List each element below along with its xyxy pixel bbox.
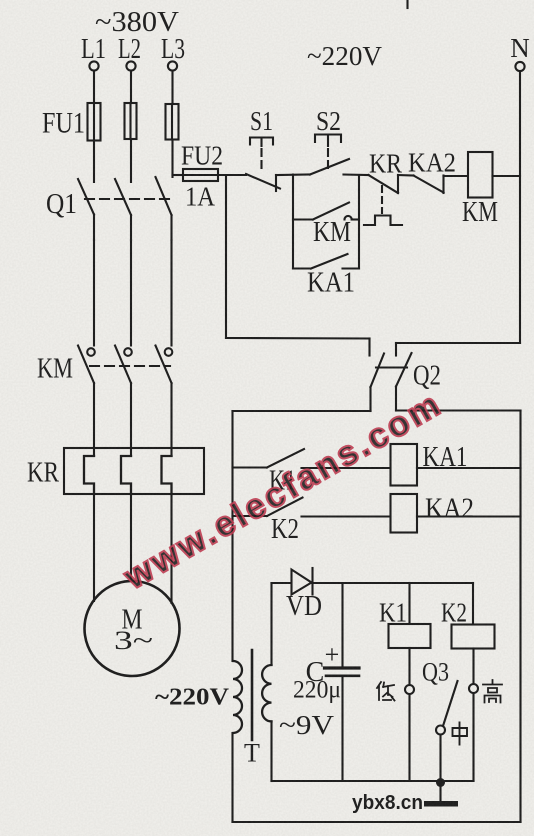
label high (CJK) xyxy=(483,680,502,703)
contact KA1 (in control) xyxy=(293,254,359,269)
relay K1 to terminal xyxy=(408,648,410,685)
wire middle to junction xyxy=(439,735,441,782)
relay coil K1 branch upper xyxy=(408,583,410,624)
junction node xyxy=(436,778,445,787)
contact KA2 NC xyxy=(414,176,469,194)
breaker Q1 pole 1 xyxy=(78,179,94,240)
label middle (CJK) xyxy=(453,723,468,745)
fuse FU1 pole 2 xyxy=(125,103,137,139)
contact KM auxiliary (self-hold) xyxy=(293,203,359,220)
capacitor C branch wire lower xyxy=(341,676,343,781)
label low (CJK) xyxy=(377,682,395,701)
breaker Q1 linkage dashed xyxy=(85,198,172,200)
thermal relay KR heater 3 xyxy=(162,456,172,494)
wire low to bottom xyxy=(408,694,410,781)
box left edge wire upper xyxy=(231,411,233,661)
coil KA1 xyxy=(391,444,521,486)
terminal L3 xyxy=(161,34,185,71)
diode VD xyxy=(292,568,313,595)
wire phase L1 drop xyxy=(93,71,95,182)
pushbutton S1 plunger dashed xyxy=(260,149,262,170)
watermark www.elecfans.com xyxy=(117,384,449,598)
inner box left wire lower xyxy=(270,721,272,781)
transformer T primary winding xyxy=(233,661,242,733)
contactor KM linkage dashed xyxy=(90,365,170,367)
box top edge right wire xyxy=(396,409,521,411)
contactor KM main pole 1 xyxy=(78,346,95,457)
wire KR to motor U xyxy=(93,494,95,601)
terminal N xyxy=(510,33,530,71)
KR test link dashed xyxy=(381,186,383,213)
wire FU2 branch drop xyxy=(225,175,227,338)
contact K2 xyxy=(233,498,391,517)
fuse FU1 pole 3 xyxy=(166,104,179,140)
inner box left wire upper xyxy=(270,583,272,665)
relay coil K1 xyxy=(389,624,431,648)
pushbutton S2 plunger dashed xyxy=(327,149,329,168)
terminal high xyxy=(469,684,478,693)
relay K2 to terminal xyxy=(472,649,474,685)
ground xyxy=(424,783,458,807)
thermal contact KR NC xyxy=(369,175,414,193)
thermal relay KR box xyxy=(64,448,204,494)
wire L1 to KM xyxy=(93,240,95,346)
terminal middle xyxy=(436,726,445,735)
contactor KM main pole 2 xyxy=(115,346,132,457)
node B vertical wire xyxy=(358,175,360,269)
pushbutton S2 NO contact xyxy=(310,159,349,175)
wire phase L3 drop xyxy=(171,71,173,177)
fuse FU1 pole 1 xyxy=(88,103,101,141)
inner box top wire xyxy=(272,582,474,584)
relay coil K2 branch upper xyxy=(472,583,474,625)
coil KA2 xyxy=(391,494,521,533)
wire L3 tap to FU2 xyxy=(173,174,184,176)
wire L3 to KM xyxy=(170,240,172,346)
wire S2 to node B xyxy=(344,173,369,176)
motor M 3~ xyxy=(85,581,180,676)
contact K1 xyxy=(233,449,391,468)
wire lower rail left xyxy=(226,337,370,340)
wire FU2 to S1 xyxy=(218,174,246,176)
selector Q3 lever xyxy=(443,681,458,726)
wire N drop xyxy=(519,71,521,343)
fuse FU2 xyxy=(183,169,218,181)
node A vertical wire xyxy=(292,175,294,269)
terminal L2 xyxy=(118,34,141,71)
relay coil K2 xyxy=(452,625,495,649)
capacitor C branch wire upper xyxy=(341,583,343,666)
wire S1 to S2 xyxy=(276,173,310,176)
inner box bottom wire xyxy=(272,780,474,782)
switch Q2 pole 1 xyxy=(370,339,391,412)
wire KR to motor W xyxy=(170,494,172,603)
switch Q2 pole 2 xyxy=(393,343,412,411)
KR test button xyxy=(364,216,402,226)
terminal L1 xyxy=(81,34,106,71)
box left edge wire lower xyxy=(231,733,233,822)
pushbutton S1 NC contact xyxy=(246,174,280,191)
box top edge left wire xyxy=(233,410,371,412)
wire KR to motor V xyxy=(130,494,132,581)
thermal relay KR heater 2 xyxy=(121,456,131,494)
wire lower rail right xyxy=(396,342,520,344)
breaker Q1 pole 3 xyxy=(156,177,172,240)
transformer T core xyxy=(251,650,254,740)
box right edge wire xyxy=(519,411,521,823)
wire L2 to KM xyxy=(130,240,132,346)
top edge scan tick xyxy=(406,0,408,8)
terminal low xyxy=(405,685,414,694)
wire phase L2 drop xyxy=(130,71,132,182)
contactor KM main pole 3 xyxy=(156,346,173,457)
thermal relay KR heater 1 xyxy=(84,456,94,494)
transformer T secondary winding xyxy=(262,665,271,721)
wire high to bottom xyxy=(472,693,474,781)
breaker Q1 pole 2 xyxy=(115,179,131,240)
coil KM xyxy=(468,152,520,198)
capacitor C plates xyxy=(325,668,360,676)
pushbutton S2 actuator xyxy=(315,135,341,147)
pushbutton S1 actuator xyxy=(250,138,273,147)
box bottom edge wire xyxy=(233,821,521,823)
